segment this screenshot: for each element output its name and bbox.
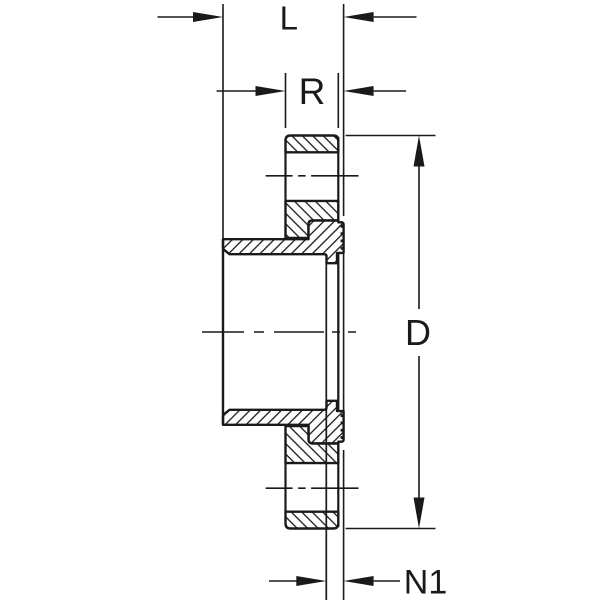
flange ring bottom band <box>286 512 339 529</box>
hub and socket upper section <box>223 221 344 264</box>
hub end face line <box>222 239 224 425</box>
bore step extension line (x=326.3) <box>325 263 327 600</box>
flange ring top band <box>286 136 339 153</box>
plate front face line through upper bolt hole (x=285.5) <box>284 151 286 202</box>
svg-text:D: D <box>405 312 431 353</box>
extension line right (gasket face, x=343.6) <box>343 4 345 600</box>
bolt hole centerline bottom <box>266 487 359 489</box>
thread serration teeth upper <box>341 225 344 250</box>
thread serration teeth lower <box>341 414 344 439</box>
svg-text:L: L <box>280 0 298 37</box>
main centerline <box>202 331 356 333</box>
hub and socket lower section <box>223 401 344 444</box>
dimension N1 <box>269 564 447 600</box>
plate front face line through lower bolt hole (x=285.5) <box>284 462 286 513</box>
extension tick right plate face (x=338.3) <box>337 73 339 128</box>
extension tick left plate face (x=285.5) <box>285 73 287 128</box>
flange back face line (x=338.3) <box>337 137 339 527</box>
svg-text:N1: N1 <box>404 564 447 600</box>
flange ring upper inner section <box>286 201 339 238</box>
bore crossing line (x=338.3) <box>337 263 339 401</box>
svg-text:R: R <box>299 71 326 112</box>
dimension D <box>346 136 436 529</box>
dimension L <box>158 0 417 37</box>
bolt hole centerline top <box>266 175 359 177</box>
extension line left (hub end face, x=223) <box>222 4 224 239</box>
flange ring lower inner section <box>286 426 339 463</box>
dimension R <box>217 71 407 112</box>
